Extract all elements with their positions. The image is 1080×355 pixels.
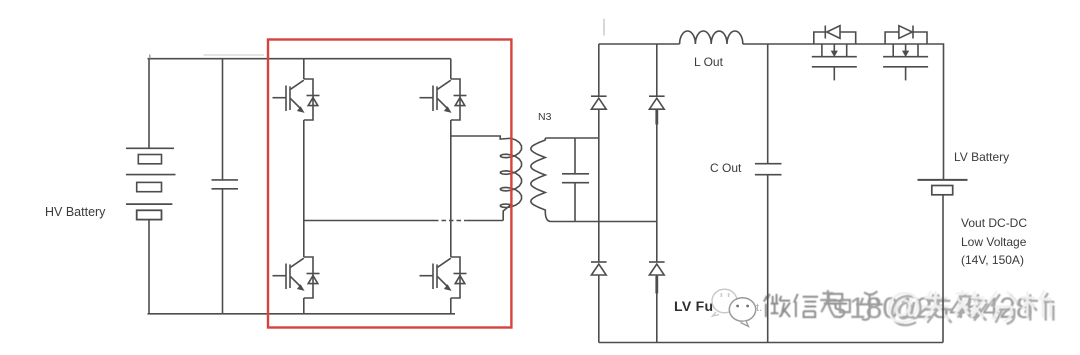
svg-text:t.: t. [756, 302, 762, 314]
watermark wechat-id text layer [764, 292, 1033, 325]
wire HV top rail [148, 58, 451, 60]
wire left leg middle [303, 120, 305, 257]
wire rectifier left branch [598, 44, 600, 343]
IGBT Q4 (bottom-right) [420, 257, 467, 298]
wire left leg top [303, 59, 305, 79]
wire HV bottom rail [148, 313, 456, 315]
svg-text:@: @ [885, 285, 922, 326]
wire DC-link cap top lead [222, 59, 224, 180]
wire secondary top [545, 137, 599, 139]
wire right leg top [450, 59, 452, 79]
svg-text:Vout DC-DC: Vout DC-DC [961, 216, 1027, 230]
wire snubber cap top lead [574, 138, 576, 174]
wire C Out top lead [767, 44, 769, 164]
wire midline to primary bottom [467, 220, 504, 222]
svg-text:L Out: L Out [694, 55, 724, 69]
wire snubber cap bottom lead [574, 183, 576, 222]
capacitor C Out [755, 164, 782, 175]
battery LV [918, 180, 968, 195]
MOSFET M2 [883, 26, 928, 81]
battery HV (3 cells) [126, 148, 176, 219]
svg-text:LV Fu: LV Fu [674, 298, 713, 314]
svg-text:Low Voltage: Low Voltage [961, 235, 1027, 249]
wire LV battery bottom lead [942, 195, 944, 343]
highlight box full-bridge (red) [268, 40, 511, 328]
watermark wechat icon [712, 289, 756, 326]
wire right leg middle [450, 120, 452, 257]
wire right leg bottom [450, 298, 452, 314]
svg-text:(14V, 150A): (14V, 150A) [961, 253, 1024, 267]
inductor L Out [680, 31, 743, 44]
wire LV bottom rail [599, 342, 943, 344]
wire bridge output midline [304, 220, 434, 222]
label Vout DC-DC [961, 216, 1027, 267]
IGBT Q3 (bottom-left) [273, 257, 320, 298]
svg-text:C Out: C Out [710, 161, 742, 175]
diode D2 (right top) [649, 96, 665, 109]
wire rectifier right branch [656, 44, 658, 343]
capacitor DC-link [212, 180, 239, 189]
faint artifact tick [603, 19, 605, 36]
wire DC-link cap bottom lead [222, 189, 224, 314]
wire C Out bottom lead [767, 175, 769, 343]
wire LV top rail right part [743, 44, 944, 180]
diode D3 (left bottom) [591, 262, 607, 275]
IGBT Q1 (top-left) [273, 79, 320, 120]
svg-text:HV Battery: HV Battery [45, 205, 106, 219]
wire LV top rail left part [599, 43, 680, 45]
label LV Full text [674, 298, 762, 314]
watermark zhihu text layer [820, 285, 1054, 329]
capacitor across secondary [562, 174, 589, 183]
svg-text:N3: N3 [538, 111, 552, 123]
transformer primary winding [451, 136, 522, 221]
wire HV battery positive lead [148, 59, 150, 149]
MOSFET M1 [812, 26, 857, 81]
faint artifact line [204, 54, 265, 56]
diode D1 (left top) [591, 96, 607, 109]
IGBT Q2 (top-right) [420, 79, 467, 120]
wire rail end tick [149, 55, 151, 59]
wire midline dashed crossover [434, 220, 467, 222]
wire HV battery negative lead [148, 220, 150, 314]
wire left leg bottom [303, 298, 305, 314]
svg-text:LV Battery: LV Battery [954, 150, 1009, 164]
wire secondary bottom [545, 212, 657, 222]
transformer secondary winding [531, 138, 546, 212]
diode D4 (right bottom) [649, 262, 665, 275]
